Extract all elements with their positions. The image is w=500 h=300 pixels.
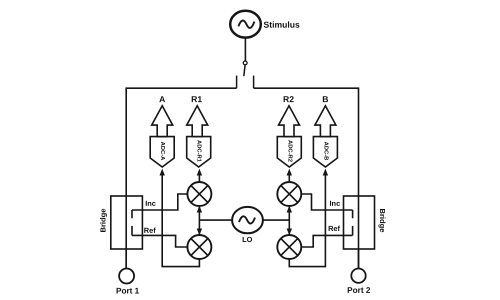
coupler bracket in BR1 [131, 210, 133, 235]
svg-text:ADC-R2: ADC-R2 [286, 140, 292, 162]
coupler bracket in BR2 [352, 210, 354, 235]
svg-text:Inc: Inc [330, 199, 341, 208]
arrowhead LO into M4 [287, 229, 292, 236]
svg-text:Ref: Ref [328, 224, 340, 233]
port 2 connector [351, 269, 365, 283]
wire BR2 Inc to mixer M3 [301, 194, 352, 210]
wire LO feed between M1 and M2 [198, 207, 200, 234]
stimulus source SRC1 [230, 11, 261, 38]
arrowhead LO into M2 [197, 229, 202, 236]
wire LO feed between M3 and M4 [288, 207, 290, 234]
bridge BR2 (port 2) [344, 196, 375, 249]
LO source [232, 207, 263, 233]
svg-text:Inc: Inc [145, 199, 156, 208]
ADC-R2 converter [277, 137, 301, 167]
receiver arrow A [152, 106, 173, 137]
wire M1 output to ADC-R1 [198, 174, 200, 182]
svg-text:A: A [159, 94, 165, 104]
svg-text:LO: LO [242, 235, 253, 244]
svg-text:ADC-R1: ADC-R1 [196, 140, 202, 163]
port 1 connector [119, 269, 134, 284]
wire M4 output to ADC-B [289, 174, 325, 266]
svg-text:ADC-B: ADC-B [322, 142, 328, 161]
ADC-R1 converter [187, 137, 211, 167]
wire switch right contact to Port2 bridge and Port 2 [254, 88, 359, 268]
wire LO to right mixers [263, 219, 289, 221]
wire through bridge BR2 [358, 196, 360, 269]
arrowhead into ADC-B [323, 169, 328, 176]
wire BR2 Ref to mixer M4 [301, 235, 352, 247]
arrowhead into ADC-R1 [197, 169, 202, 176]
svg-text:Port 2: Port 2 [347, 286, 371, 295]
svg-text:Bridge: Bridge [99, 208, 108, 232]
svg-text:Stimulus: Stimulus [263, 20, 300, 30]
switch S1 left contact [236, 76, 238, 89]
wire BR1 Inc to mixer M1 [132, 194, 187, 210]
wire BR1 Ref to mixer M2 [132, 235, 187, 247]
svg-text:Port 1: Port 1 [116, 286, 140, 295]
bridge BR1 (port 1) [111, 196, 143, 249]
switch S1 right contact [253, 76, 255, 89]
svg-text:R1: R1 [191, 94, 202, 104]
arrowhead into ADC-R2 [287, 169, 292, 176]
switch S1 pole node [243, 61, 247, 65]
wire M2 output to ADC-A [162, 174, 199, 266]
wire stimulus to switch node [244, 38, 246, 61]
wire through bridge BR1 [125, 196, 127, 269]
mixer M2 (port1 Ref) [187, 235, 211, 259]
wire switch left contact to Port1 bridge and Port 1 [126, 88, 236, 268]
wire LO to left mixers [199, 219, 232, 221]
mixer M4 (port2 Ref) [277, 235, 301, 259]
switch S1 arm [244, 65, 245, 76]
arrowhead into ADC-A [160, 169, 165, 176]
svg-text:R2: R2 [283, 94, 294, 104]
svg-text:Bridge: Bridge [378, 208, 387, 232]
receiver arrow R1 [187, 106, 208, 137]
arrowhead LO into M1 [197, 206, 202, 213]
ADC-A converter [150, 137, 174, 167]
receiver arrow B [315, 106, 336, 137]
mixer M3 (port2 Inc) [277, 182, 301, 206]
wire M3 output to ADC-R2 [288, 174, 290, 182]
svg-text:Ref: Ref [144, 226, 156, 235]
arrowhead LO into M3 [287, 206, 292, 213]
ADC-B converter [313, 137, 337, 167]
svg-text:B: B [322, 94, 328, 104]
receiver arrow R2 [279, 106, 300, 137]
svg-text:ADC-A: ADC-A [159, 142, 165, 161]
mixer M1 (port1 Inc) [187, 182, 211, 206]
